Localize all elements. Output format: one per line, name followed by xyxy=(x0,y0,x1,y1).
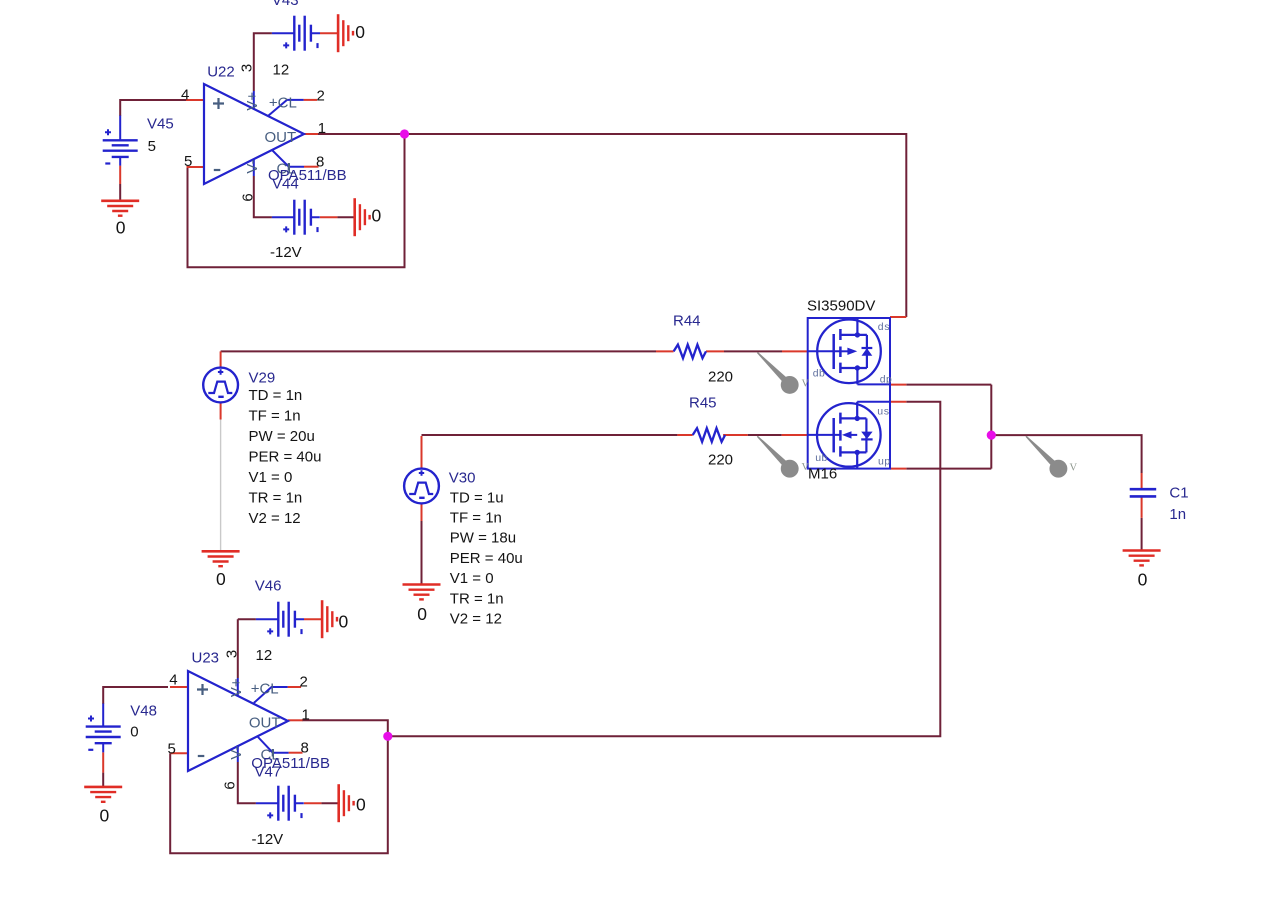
svg-text:+CL: +CL xyxy=(251,681,279,698)
svg-text:V29: V29 xyxy=(249,370,276,387)
svg-text:db: db xyxy=(813,369,826,381)
svg-text:V1 = 0: V1 = 0 xyxy=(249,469,293,486)
svg-text:0: 0 xyxy=(356,795,366,815)
svg-text:3: 3 xyxy=(224,650,241,658)
svg-text:+CL: +CL xyxy=(269,95,297,112)
svg-text:ds: ds xyxy=(878,322,891,334)
svg-text:V2 = 12: V2 = 12 xyxy=(249,510,301,527)
svg-text:V47: V47 xyxy=(255,764,282,781)
svg-text:0: 0 xyxy=(130,724,138,741)
svg-text:TR = 1n: TR = 1n xyxy=(249,490,303,507)
svg-text:V-: V- xyxy=(228,745,245,759)
svg-text:12: 12 xyxy=(256,647,273,664)
svg-text:V: V xyxy=(1070,463,1078,474)
svg-text:1: 1 xyxy=(318,120,326,137)
svg-text:M16: M16 xyxy=(808,466,837,483)
svg-text:8: 8 xyxy=(301,739,309,756)
svg-text:us: us xyxy=(877,407,890,419)
svg-text:2: 2 xyxy=(300,673,308,690)
svg-text:0: 0 xyxy=(1138,570,1148,590)
svg-text:5: 5 xyxy=(168,741,176,758)
svg-text:V45: V45 xyxy=(147,116,174,133)
svg-text:12: 12 xyxy=(273,62,290,79)
svg-text:0: 0 xyxy=(339,612,349,632)
svg-text:1n: 1n xyxy=(1169,506,1186,523)
svg-text:1: 1 xyxy=(302,706,310,723)
svg-text:SI3590DV: SI3590DV xyxy=(807,298,875,315)
svg-text:V48: V48 xyxy=(130,703,157,720)
svg-text:TD = 1n: TD = 1n xyxy=(249,387,303,404)
svg-text:0: 0 xyxy=(100,806,110,826)
svg-text:TF = 1n: TF = 1n xyxy=(450,510,502,527)
svg-text:V30: V30 xyxy=(449,470,476,487)
svg-text:220: 220 xyxy=(708,452,733,469)
svg-text:V44: V44 xyxy=(272,176,299,193)
svg-text:2: 2 xyxy=(317,88,325,105)
svg-text:V46: V46 xyxy=(255,578,282,595)
svg-text:3: 3 xyxy=(239,64,256,72)
svg-text:0: 0 xyxy=(116,218,126,238)
svg-text:TD = 1u: TD = 1u xyxy=(450,490,504,507)
svg-text:6: 6 xyxy=(222,781,239,789)
svg-text:TF = 1n: TF = 1n xyxy=(249,408,301,425)
svg-text:dp: dp xyxy=(880,375,893,387)
svg-text:C1: C1 xyxy=(1169,485,1188,502)
svg-text:R44: R44 xyxy=(673,313,701,330)
svg-text:OUT: OUT xyxy=(265,129,297,146)
svg-text:up: up xyxy=(878,457,891,469)
svg-text:4: 4 xyxy=(181,87,189,104)
svg-text:6: 6 xyxy=(240,193,257,201)
svg-text:V1 = 0: V1 = 0 xyxy=(450,570,494,587)
svg-text:PW = 18u: PW = 18u xyxy=(450,530,516,547)
svg-text:5: 5 xyxy=(148,138,156,155)
svg-text:R45: R45 xyxy=(689,395,717,412)
svg-text:PW = 20u: PW = 20u xyxy=(249,428,315,445)
svg-text:4: 4 xyxy=(169,672,177,689)
svg-text:PER = 40u: PER = 40u xyxy=(450,550,523,567)
svg-text:-12V: -12V xyxy=(252,831,284,848)
svg-text:V+: V+ xyxy=(228,678,245,697)
svg-text:V-: V- xyxy=(244,159,261,173)
svg-text:0: 0 xyxy=(417,604,427,624)
svg-text:TR = 1n: TR = 1n xyxy=(450,591,504,608)
svg-text:0: 0 xyxy=(372,206,382,226)
svg-text:V: V xyxy=(802,379,810,390)
svg-text:PER = 40u: PER = 40u xyxy=(249,449,322,466)
svg-text:ub: ub xyxy=(815,453,828,465)
svg-text:0: 0 xyxy=(355,22,365,42)
svg-text:U22: U22 xyxy=(207,64,235,81)
svg-text:-12V: -12V xyxy=(270,244,302,261)
svg-text:OUT: OUT xyxy=(249,715,281,732)
svg-text:V+: V+ xyxy=(244,92,261,111)
svg-text:5: 5 xyxy=(184,153,192,170)
svg-text:220: 220 xyxy=(708,369,733,386)
svg-text:V43: V43 xyxy=(272,0,299,9)
svg-text:0: 0 xyxy=(216,569,226,589)
svg-text:U23: U23 xyxy=(192,650,220,667)
svg-text:V2 = 12: V2 = 12 xyxy=(450,611,502,628)
